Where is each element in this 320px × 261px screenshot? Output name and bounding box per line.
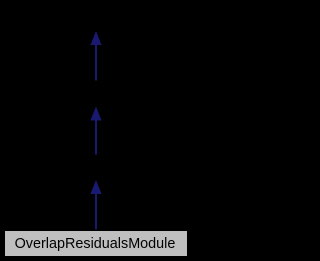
inheritance arrow 3 (bottom) [90,180,101,230]
inheritance arrow 2 (middle) [90,107,101,155]
inheritance arrow 1 (top) [90,31,101,81]
svg-text:OverlapResidualsModule: OverlapResidualsModule [15,236,176,252]
node OverlapResidualsModule (highlighted box) [5,231,188,257]
